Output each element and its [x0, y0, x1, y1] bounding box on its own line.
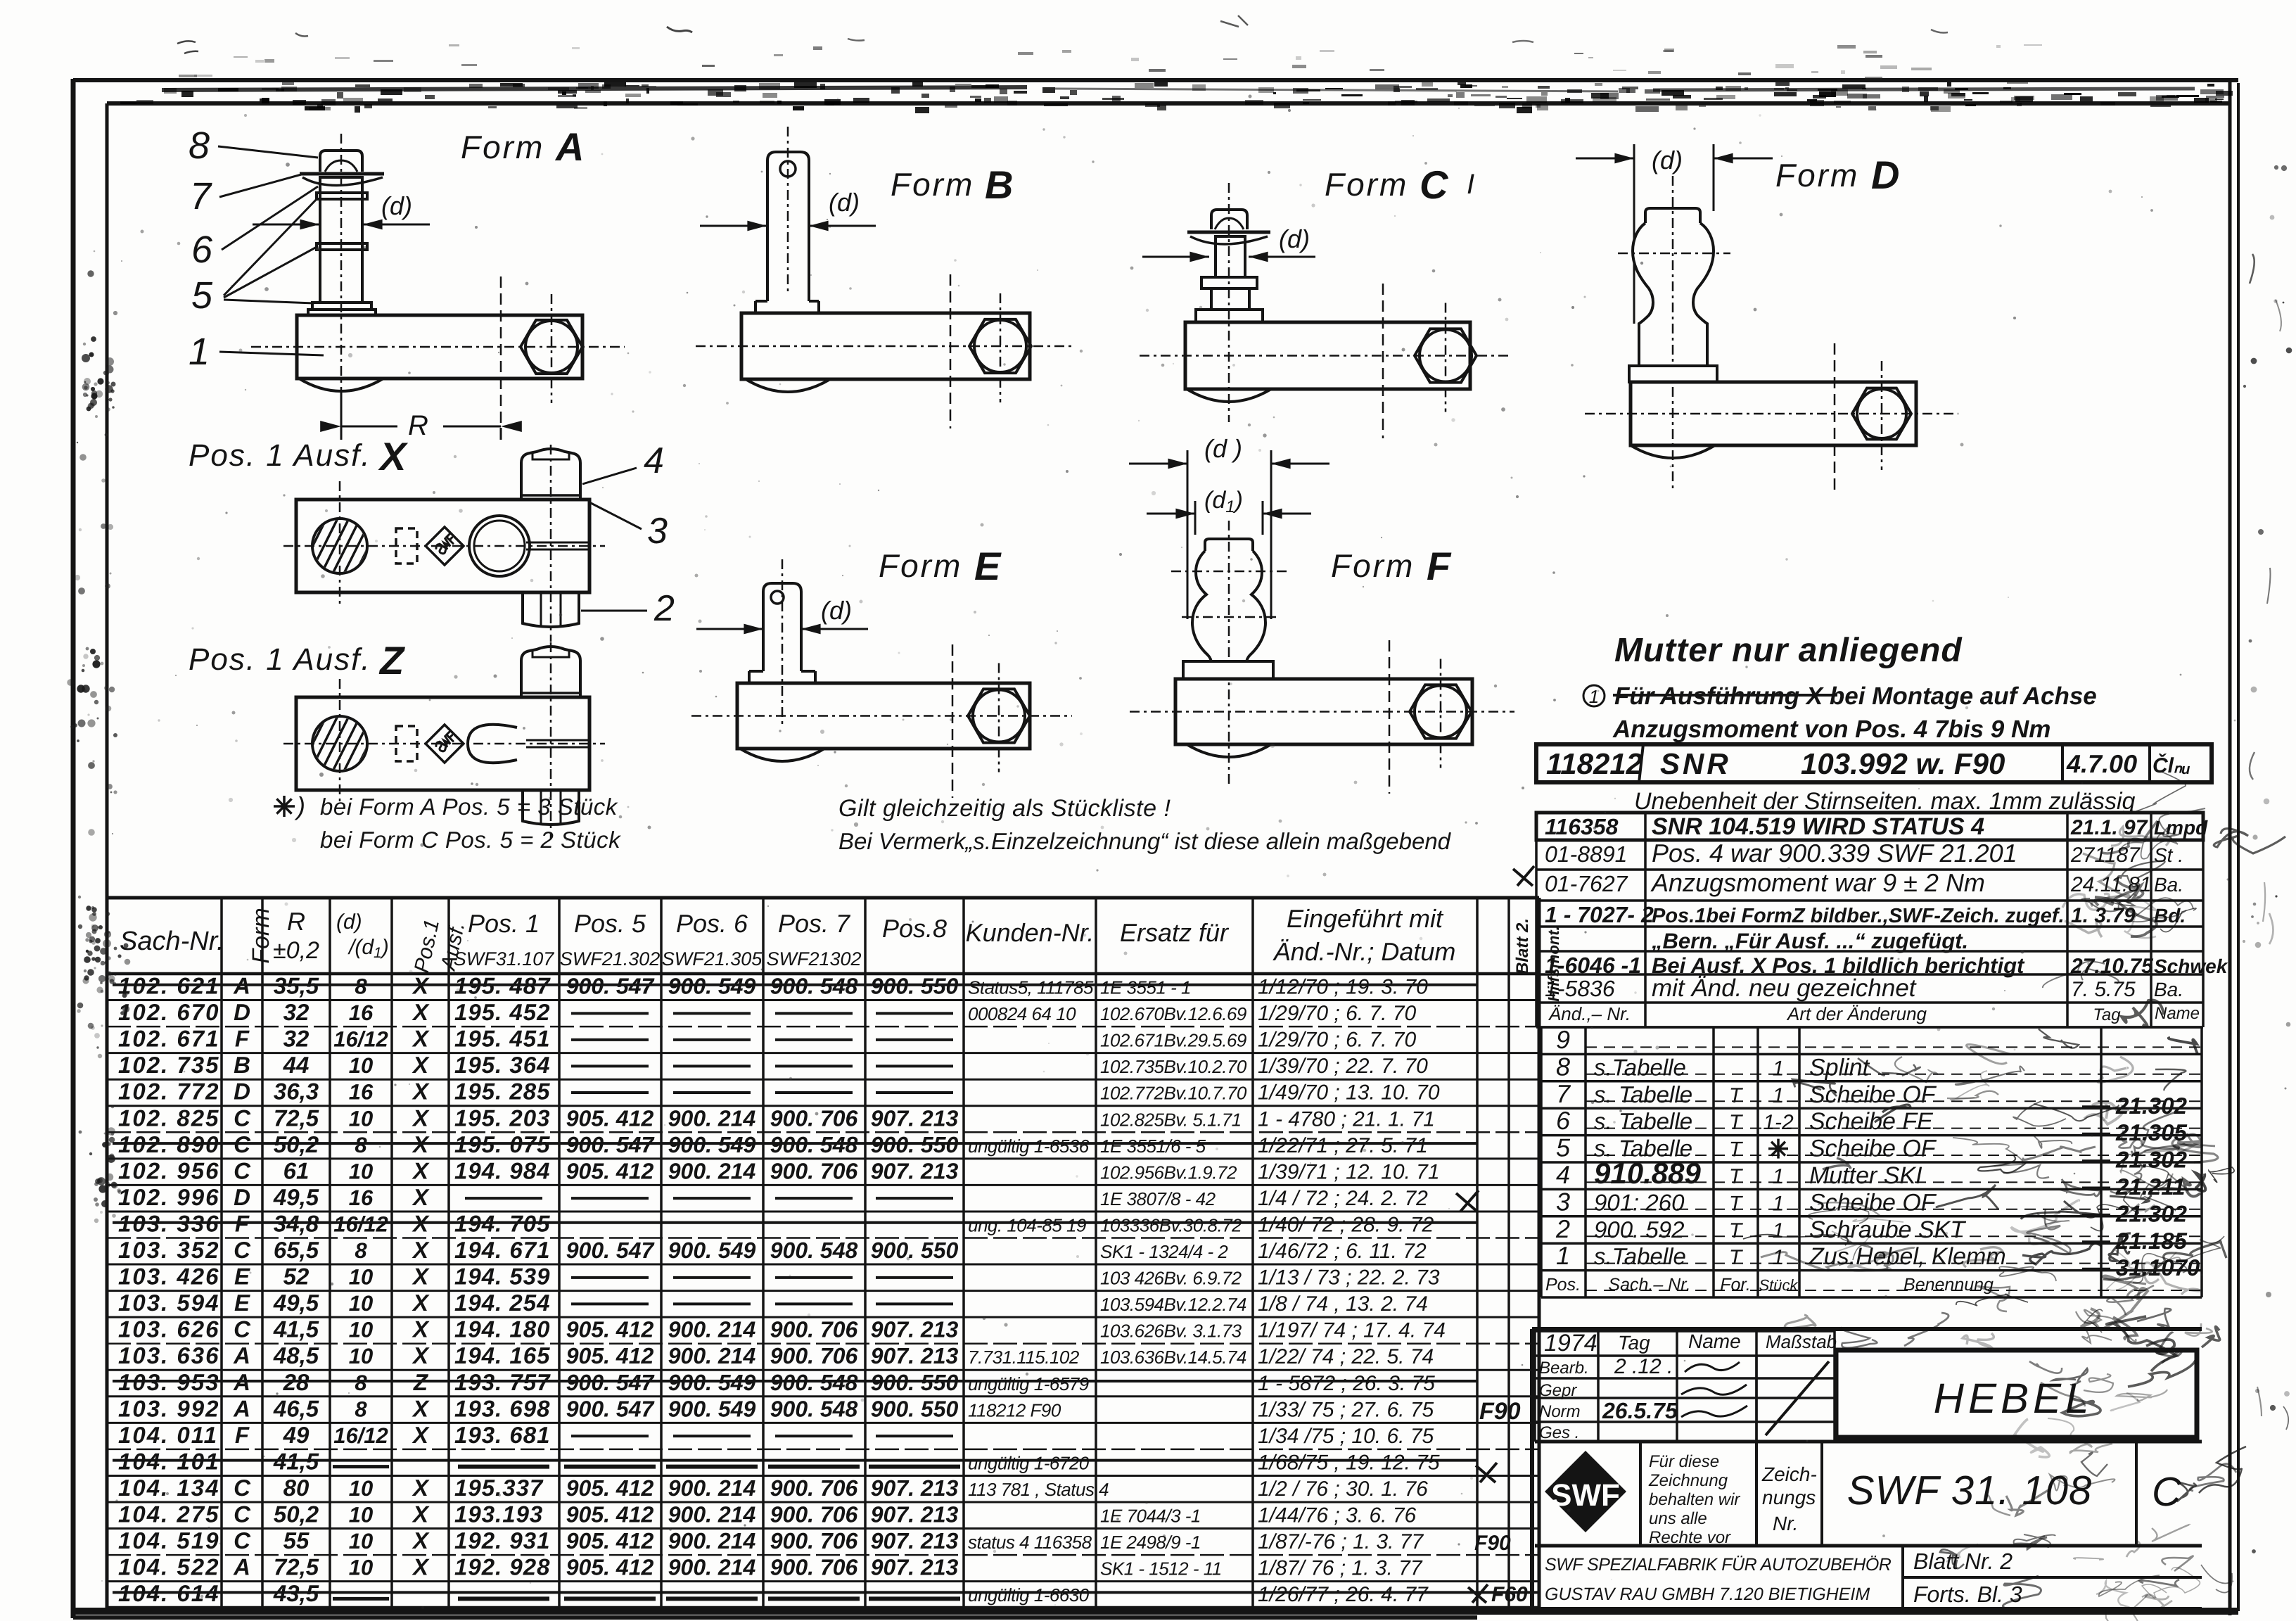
svg-text:Sach-Nr.: Sach-Nr. [120, 927, 224, 956]
svg-text:Scheibe OF: Scheibe OF [1809, 1136, 1937, 1162]
svg-text:907. 213: 907. 213 [871, 1555, 959, 1580]
svg-text:4: 4 [1556, 1160, 1570, 1189]
svg-text:1 - 4780 ; 21. 1. 71: 1 - 4780 ; 21. 1. 71 [1258, 1107, 1435, 1131]
svg-text:Splint: Splint [1809, 1054, 1870, 1081]
svg-text:7. 5.75: 7. 5.75 [2071, 978, 2136, 1001]
svg-text:900. 706: 900. 706 [770, 1343, 858, 1368]
svg-text:/(d1): /(d1) [347, 936, 389, 961]
svg-text:4.7.00: 4.7.00 [2066, 749, 2137, 778]
svg-text:SK1 - 1324/4 - 2: SK1 - 1324/4 - 2 [1100, 1241, 1228, 1262]
svg-text:s. Tabelle: s. Tabelle [1594, 1108, 1692, 1134]
svg-text:195. 451: 195. 451 [454, 1026, 550, 1052]
svg-text:21.302: 21.302 [2115, 1093, 2188, 1119]
svg-text:905. 412: 905. 412 [566, 1105, 654, 1131]
svg-text:102.671Bv.29.5.69: 102.671Bv.29.5.69 [1100, 1030, 1246, 1051]
svg-text:For.: For. [1720, 1275, 1751, 1295]
svg-text:Zeich-: Zeich- [1761, 1463, 1817, 1485]
svg-text:X: X [412, 1290, 430, 1316]
svg-text:1/44/76 ; 3. 6. 76: 1/44/76 ; 3. 6. 76 [1258, 1504, 1416, 1527]
svg-text:113 781 , Status 4: 113 781 , Status 4 [968, 1479, 1109, 1500]
svg-text:36,3: 36,3 [274, 1079, 319, 1105]
svg-text:SWF SPEZIALFABRIK FÜR AUTOZUBE: SWF SPEZIALFABRIK FÜR AUTOZUBEHÖR [1545, 1555, 1892, 1575]
svg-text:905. 412: 905. 412 [566, 1343, 654, 1368]
svg-text:Ges .: Ges . [1539, 1423, 1579, 1442]
svg-text:E: E [234, 1290, 250, 1316]
SNR 118212 change box [1536, 744, 2212, 782]
svg-text:Mutter SKI: Mutter SKI [1809, 1162, 1922, 1189]
Form E view [691, 544, 1072, 798]
svg-text:D: D [234, 1079, 250, 1105]
svg-text:X: X [412, 1475, 430, 1501]
svg-text:900. 549: 900. 549 [668, 1238, 756, 1263]
svg-text:Pos.: Pos. [1545, 1275, 1581, 1295]
svg-text:Blatt 2.: Blatt 2. [1513, 918, 1532, 974]
svg-text:Tag: Tag [1618, 1332, 1650, 1354]
svg-text:192. 928: 192. 928 [454, 1554, 550, 1580]
svg-text:Änd.,– Nr.: Änd.,– Nr. [1548, 1003, 1631, 1024]
svg-text:SWF31.107: SWF31.107 [454, 948, 555, 970]
svg-text:GUSTAV RAU GMBH 7.120 BIET: GUSTAV RAU GMBH 7.120 BIETIGHEIM [1545, 1584, 1870, 1604]
svg-text:900. 214: 900. 214 [668, 1317, 756, 1342]
svg-text:193. 681: 193. 681 [454, 1422, 550, 1448]
svg-text:1/22/ 74 ; 22. 5. 74: 1/22/ 74 ; 22. 5. 74 [1258, 1345, 1434, 1368]
svg-text:1974: 1974 [1544, 1330, 1597, 1356]
svg-text:1: 1 [1773, 1057, 1785, 1080]
svg-text:F: F [1427, 544, 1452, 588]
svg-text:102. 671: 102. 671 [118, 1026, 219, 1052]
svg-text:s.Tabelle: s.Tabelle [1594, 1054, 1686, 1080]
svg-text:s. Tabelle: s. Tabelle [1594, 1081, 1692, 1107]
svg-text:192. 931: 192. 931 [454, 1527, 550, 1553]
svg-text:X: X [412, 1422, 430, 1448]
svg-text:Bearb.: Bearb. [1539, 1359, 1589, 1378]
svg-text:3: 3 [647, 511, 668, 552]
svg-text:46,5: 46,5 [273, 1395, 319, 1421]
svg-text:52: 52 [283, 1264, 310, 1290]
svg-text:Pos.1bei FormZ bildber.,SWF-Ze: Pos.1bei FormZ bildber.,SWF-Zeich. zugef… [1652, 905, 2065, 927]
svg-text:102.670Bv.12.6.69: 102.670Bv.12.6.69 [1100, 1003, 1246, 1024]
svg-text:Rechte vor: Rechte vor [1649, 1528, 1731, 1547]
svg-text:X: X [412, 1105, 430, 1131]
svg-text:Pos. 7: Pos. 7 [778, 909, 851, 938]
Form D ball stud [1645, 208, 1700, 223]
svg-text:T: T [1729, 1246, 1744, 1269]
svg-text:„Bern. „Für Ausf. ...“ zugef: „Bern. „Für Ausf. ...“ zugefügt. [1651, 929, 1968, 953]
svg-text:ungültig 1-6579: ungültig 1-6579 [968, 1373, 1089, 1394]
svg-text:1: 1 [1773, 1192, 1785, 1215]
svg-text:C: C [234, 1237, 251, 1263]
svg-text:65,5: 65,5 [274, 1237, 319, 1263]
svg-text:116358: 116358 [1545, 814, 1619, 839]
svg-text:195. 203: 195. 203 [454, 1105, 550, 1131]
svg-text:Ba.: Ba. [2154, 874, 2183, 896]
svg-text:72,5: 72,5 [274, 1554, 319, 1580]
svg-text:Änd.-Nr.; Datum: Änd.-Nr.; Datum [1273, 937, 1456, 966]
svg-text:X: X [412, 1026, 430, 1052]
logo band [1535, 1442, 2202, 1546]
svg-text:Bd.: Bd. [2154, 905, 2186, 927]
svg-text:SWF: SWF [1551, 1478, 1620, 1513]
svg-text:Ersatz für: Ersatz für [1120, 918, 1230, 947]
svg-text:(d): (d) [1652, 146, 1683, 174]
Form B clevis pin [767, 152, 809, 301]
svg-text:1: 1 [1773, 1219, 1785, 1242]
svg-text:7: 7 [1556, 1079, 1571, 1108]
svg-text:194. 539: 194. 539 [454, 1264, 550, 1290]
svg-text:21.302: 21.302 [2115, 1200, 2188, 1226]
svg-text:8: 8 [1556, 1052, 1570, 1081]
title block frame [1532, 1329, 2202, 1609]
big table column headers [120, 904, 1562, 1002]
svg-text:907. 213: 907. 213 [871, 1105, 959, 1131]
svg-text:194. 254: 194. 254 [454, 1290, 550, 1316]
note: Stueck note [274, 792, 621, 853]
svg-text:26.5.75: 26.5.75 [1602, 1398, 1678, 1423]
svg-text:1/29/70 ; 6. 7. 70: 1/29/70 ; 6. 7. 70 [1258, 1002, 1416, 1025]
svg-text:5: 5 [191, 274, 213, 317]
svg-text:Form: Form [248, 908, 274, 963]
svg-text:Status5; 111785: Status5; 111785 [968, 977, 1094, 998]
svg-text:Form: Form [879, 547, 962, 584]
svg-text:Nr.: Nr. [1773, 1513, 1798, 1534]
svg-text:50,2: 50,2 [274, 1501, 319, 1527]
svg-text:103. 352: 103. 352 [118, 1237, 219, 1263]
svg-text:194. 165: 194. 165 [454, 1342, 550, 1368]
svg-text:103. 426: 103. 426 [118, 1264, 219, 1290]
svg-text:1: 1 [1589, 686, 1599, 707]
svg-text:Art der Änderung: Art der Änderung [1786, 1003, 1927, 1024]
svg-text:49: 49 [283, 1422, 310, 1448]
svg-text:102.825Bv. 5.1.71: 102.825Bv. 5.1.71 [1100, 1109, 1242, 1130]
svg-text:104. 134: 104. 134 [118, 1475, 219, 1501]
Form E clevis pin [763, 583, 801, 671]
svg-text:(d): (d) [821, 596, 852, 625]
Form D view [1576, 144, 1958, 495]
svg-text:118212 F90: 118212 F90 [968, 1399, 1061, 1420]
svg-text:2: 2 [1555, 1214, 1570, 1243]
svg-text:910.889: 910.889 [1594, 1157, 1701, 1190]
svg-text:195. 285: 195. 285 [454, 1079, 550, 1105]
svg-text:901: 260: 901: 260 [1594, 1189, 1685, 1215]
svg-text:1/46/72 ; 6. 11. 72: 1/46/72 ; 6. 11. 72 [1258, 1240, 1427, 1263]
svg-text:1/34 /75 ; 10. 6. 75: 1/34 /75 ; 10. 6. 75 [1258, 1425, 1434, 1448]
svg-text:10: 10 [349, 1503, 373, 1527]
svg-text:102.956Bv.1.9.72: 102.956Bv.1.9.72 [1100, 1162, 1237, 1183]
svg-text:Stück: Stück [1759, 1276, 1798, 1294]
svg-text:(d1): (d1) [1204, 487, 1243, 516]
svg-text:104. 519: 104. 519 [118, 1527, 219, 1553]
svg-text:1/8 / 74 , 13. 2. 74: 1/8 / 74 , 13. 2. 74 [1258, 1292, 1428, 1316]
svg-text:T: T [1729, 1084, 1744, 1107]
svg-text:1/33/ 75 ; 27. 6. 75: 1/33/ 75 ; 27. 6. 75 [1258, 1398, 1434, 1421]
Form A view [189, 125, 625, 441]
svg-text:X: X [412, 1342, 430, 1368]
svg-text:Pos. 5: Pos. 5 [574, 909, 646, 938]
svg-text:27.10.75: 27.10.75 [2070, 955, 2154, 978]
svg-text:900. 548: 900. 548 [770, 1396, 858, 1421]
svg-text:1: 1 [1773, 1084, 1785, 1107]
svg-text:1-2: 1-2 [1763, 1111, 1794, 1134]
svg-text:1E 3551/6 - 5: 1E 3551/6 - 5 [1100, 1136, 1206, 1157]
svg-text:Gilt gleichzeitig als Stü: Gilt gleichzeitig als Stückliste ! [838, 795, 1171, 822]
svg-text:Form: Form [1331, 547, 1415, 584]
svg-text:A: A [233, 1342, 250, 1368]
svg-text:1/39/71 ; 12. 10. 71: 1/39/71 ; 12. 10. 71 [1258, 1160, 1440, 1183]
svg-text:907. 213: 907. 213 [871, 1502, 959, 1527]
svg-text:61: 61 [283, 1157, 310, 1183]
svg-text:Pos.8: Pos.8 [882, 914, 947, 943]
svg-text:T: T [1729, 1219, 1744, 1242]
svg-text:X: X [412, 1052, 430, 1078]
svg-text:X: X [412, 1079, 430, 1105]
svg-text:10: 10 [349, 1556, 373, 1580]
svg-text:Pos. 4 war 900.339 SWF 21.20: Pos. 4 war 900.339 SWF 21.201 [1652, 839, 2017, 867]
svg-text:Name: Name [1688, 1330, 1741, 1352]
svg-text:bei Form A Pos. 5 = 3 St: bei Form A Pos. 5 = 3 Stück [320, 794, 618, 820]
svg-text:(d): (d) [381, 191, 412, 220]
svg-text:X: X [412, 1316, 430, 1342]
big variants table grid [107, 898, 1539, 1608]
svg-text:1/68/75 , 19. 12. 75: 1/68/75 , 19. 12. 75 [1258, 1451, 1440, 1474]
svg-text:55: 55 [283, 1527, 310, 1553]
svg-text:900. 214: 900. 214 [668, 1105, 756, 1131]
svg-text:900. 214: 900. 214 [668, 1555, 756, 1580]
svg-text:72,5: 72,5 [274, 1105, 319, 1131]
svg-text:ung. 104-85 19: ung. 104-85 19 [968, 1214, 1086, 1235]
svg-text:1E 2498/9 -1: 1E 2498/9 -1 [1100, 1532, 1201, 1553]
svg-text:F: F [235, 1026, 250, 1052]
svg-text:1/2 / 76 ; 30. 1. 76: 1/2 / 76 ; 30. 1. 76 [1258, 1477, 1428, 1501]
svg-text:1-6046 -1: 1-6046 -1 [1545, 953, 1641, 978]
svg-text:8: 8 [355, 1397, 367, 1421]
svg-text:1/13 / 73 ; 22. 2. 73: 1/13 / 73 ; 22. 2. 73 [1258, 1266, 1440, 1290]
svg-text:SWF21302: SWF21302 [766, 948, 861, 970]
svg-text:uns alle: uns alle [1649, 1509, 1707, 1528]
svg-text:9: 9 [1556, 1025, 1570, 1054]
svg-text:103. 992: 103. 992 [118, 1395, 219, 1421]
svg-text:104. 522: 104. 522 [118, 1554, 219, 1580]
svg-text:8: 8 [355, 1238, 367, 1263]
svg-text:10: 10 [349, 1529, 373, 1553]
svg-text:R: R [287, 907, 305, 936]
Form F view [1129, 434, 1514, 794]
svg-text:8: 8 [355, 1133, 367, 1157]
svg-text:49,5: 49,5 [273, 1184, 319, 1210]
svg-text:194. 180: 194. 180 [454, 1316, 550, 1342]
HEBEL box [1836, 1350, 2197, 1437]
svg-text:103. 626: 103. 626 [118, 1316, 219, 1342]
svg-text:X: X [412, 999, 430, 1025]
svg-text:F90: F90 [1474, 1532, 1511, 1555]
svg-text:900. 214: 900. 214 [668, 1158, 756, 1183]
svg-text:16/12: 16/12 [333, 1423, 388, 1448]
svg-text:905. 412: 905. 412 [566, 1475, 654, 1501]
svg-text:32: 32 [283, 999, 310, 1025]
svg-text:1/12/70 ; 19. 3. 70: 1/12/70 ; 19. 3. 70 [1258, 976, 1428, 999]
svg-text:X: X [412, 1501, 430, 1527]
svg-text:7: 7 [190, 175, 212, 217]
svg-text:Anzugsmoment von Pos. 4 7: Anzugsmoment von Pos. 4 7bis 9 Nm [1612, 716, 2051, 743]
svg-text:900. 706: 900. 706 [770, 1475, 858, 1501]
svg-text:16/12: 16/12 [333, 1212, 388, 1236]
svg-text:195.337: 195.337 [454, 1475, 544, 1501]
svg-text:C: C [234, 1501, 251, 1527]
svg-text:49,5: 49,5 [273, 1290, 319, 1316]
svg-text:102. 735: 102. 735 [118, 1052, 219, 1078]
svg-text:(d): (d) [336, 910, 362, 934]
svg-text:Gepr: Gepr [1539, 1381, 1577, 1400]
svg-text:8: 8 [355, 1371, 367, 1395]
svg-text:104. 275: 104. 275 [118, 1501, 219, 1527]
svg-text:900. 214: 900. 214 [668, 1528, 756, 1553]
svg-text:900. 706: 900. 706 [770, 1528, 858, 1553]
svg-text:X: X [378, 434, 409, 478]
Form F double-ball stud [1205, 539, 1253, 551]
svg-text:1/39/70 ; 22. 7. 70: 1/39/70 ; 22. 7. 70 [1258, 1055, 1428, 1078]
svg-text:000824 64 10: 000824 64 10 [968, 1003, 1076, 1024]
Form C view [1140, 163, 1512, 438]
svg-text:1/26/77 ; 26. 4. 77: 1/26/77 ; 26. 4. 77 [1258, 1583, 1429, 1606]
svg-text:D: D [234, 1184, 250, 1210]
svg-text:1/87/-76 ; 1. 3. 77: 1/87/-76 ; 1. 3. 77 [1258, 1530, 1424, 1553]
svg-text:Form: Form [461, 129, 544, 165]
svg-text:102. 670: 102. 670 [118, 999, 219, 1025]
SWF logo diamond [1545, 1451, 1626, 1532]
svg-text:103.626Bv. 3.1.73: 103.626Bv. 3.1.73 [1100, 1321, 1242, 1342]
note: Mutter nur anliegend (handwritten) [1583, 632, 2097, 743]
svg-text:ungültig 1-6630: ungültig 1-6630 [968, 1584, 1090, 1606]
svg-text:102. 996: 102. 996 [118, 1184, 219, 1210]
svg-text:C: C [234, 1316, 251, 1342]
svg-text:Scheibe OF: Scheibe OF [1809, 1081, 1937, 1108]
svg-text:8: 8 [189, 125, 210, 167]
svg-text:10: 10 [349, 1318, 373, 1342]
svg-text:SWF21.302: SWF21.302 [560, 948, 661, 970]
svg-text:900. 706: 900. 706 [770, 1158, 858, 1183]
svg-text:X: X [412, 1264, 430, 1290]
svg-text:Schwek: Schwek [2154, 955, 2228, 977]
svg-text:900. 550: 900. 550 [871, 1396, 959, 1421]
Pos.1 Ausf. X view [189, 434, 675, 642]
svg-text:SNR: SNR [1660, 747, 1731, 780]
svg-text:(d): (d) [1279, 224, 1310, 253]
svg-text:Bei Vermerk„s.Einzelzeichnung: Bei Vermerk„s.Einzelzeichnung“ ist diese… [838, 828, 1452, 854]
svg-text:mit Änd. neu gezeichnet: mit Änd. neu gezeichnet [1652, 974, 1917, 1002]
svg-text:1: 1 [1773, 1165, 1785, 1188]
svg-text:104. 011: 104. 011 [118, 1422, 218, 1448]
svg-text:E: E [234, 1264, 250, 1290]
note: Stueckliste [838, 795, 1452, 854]
svg-text:5: 5 [1556, 1133, 1571, 1162]
svg-text:SK1 - 1512 - 11: SK1 - 1512 - 11 [1100, 1558, 1222, 1579]
svg-text:900. 547: 900. 547 [566, 1238, 656, 1263]
svg-text:(d ): (d ) [1204, 434, 1242, 463]
svg-text:Blatt Nr. 2: Blatt Nr. 2 [1913, 1549, 2013, 1574]
svg-text:193. 698: 193. 698 [454, 1395, 550, 1421]
svg-text:905. 412: 905. 412 [566, 1528, 654, 1553]
svg-text:C: C [1420, 163, 1449, 207]
svg-text:905. 412: 905. 412 [566, 1158, 654, 1183]
svg-text:905. 412: 905. 412 [566, 1502, 654, 1527]
svg-text:X: X [412, 1184, 430, 1210]
svg-text:103.594Bv.12.2.74: 103.594Bv.12.2.74 [1100, 1294, 1246, 1315]
svg-text:900. 548: 900. 548 [770, 1238, 858, 1263]
svg-text:103336Bv.30.8.72: 103336Bv.30.8.72 [1100, 1214, 1242, 1235]
svg-text:Kunden-Nr.: Kunden-Nr. [966, 918, 1095, 947]
svg-text:900. 592: 900. 592 [1594, 1216, 1684, 1242]
svg-text:900. 549: 900. 549 [668, 1396, 756, 1421]
svg-text:Benennung: Benennung [1903, 1275, 1994, 1295]
Form D (d) dimension [1633, 144, 1635, 324]
svg-text:C: C [234, 1475, 251, 1501]
svg-text:behalten wir: behalten wir [1649, 1490, 1740, 1509]
svg-text:Unebenheit der Stirnseiten.: Unebenheit der Stirnseiten. max. 1mm zul… [1634, 788, 2136, 815]
svg-text:48,5: 48,5 [273, 1342, 319, 1368]
svg-text:103.992 w. F90: 103.992 w. F90 [1801, 747, 2005, 780]
svg-text:907. 213: 907. 213 [871, 1343, 959, 1368]
svg-text:1: 1 [1773, 1246, 1785, 1269]
svg-text:102. 772: 102. 772 [118, 1079, 219, 1105]
svg-text:X: X [412, 1554, 430, 1580]
svg-text:nungs: nungs [1762, 1487, 1816, 1508]
svg-text:Z: Z [378, 638, 405, 682]
svg-text:ungültig 1-6720: ungültig 1-6720 [968, 1452, 1090, 1473]
svg-text:Pos. 1 Ausf.: Pos. 1 Ausf. [189, 438, 371, 473]
Form B view [696, 127, 1072, 428]
svg-text:102.772Bv.10.7.70: 102.772Bv.10.7.70 [1100, 1083, 1247, 1104]
svg-text:F90: F90 [1479, 1398, 1521, 1425]
svg-text:905. 412: 905. 412 [566, 1555, 654, 1580]
svg-text:103. 594: 103. 594 [118, 1290, 219, 1316]
svg-text:X: X [412, 1395, 430, 1421]
svg-text:C: C [234, 1527, 251, 1553]
svg-text:900. 706: 900. 706 [770, 1317, 858, 1342]
svg-text:X: X [412, 1527, 430, 1553]
svg-text:118212: 118212 [1546, 747, 1643, 780]
svg-text:10: 10 [349, 1291, 373, 1316]
svg-text:1 - 7027- 2: 1 - 7027- 2 [1545, 902, 1654, 927]
svg-text:900. 706: 900. 706 [770, 1502, 858, 1527]
svg-text:900. 214: 900. 214 [668, 1475, 756, 1501]
svg-text:D: D [234, 999, 250, 1025]
svg-text:±0,2: ±0,2 [273, 937, 319, 964]
svg-text:A: A [554, 125, 584, 169]
svg-text:Eingeführt mit: Eingeführt mit [1287, 904, 1444, 933]
svg-text:907. 213: 907. 213 [871, 1158, 959, 1183]
svg-text:Člₙᵤ: Člₙᵤ [2152, 754, 2190, 777]
svg-text:SWF21.305: SWF21.305 [662, 948, 763, 970]
svg-text:X: X [412, 1157, 430, 1183]
svg-text:1/49/70 ; 13. 10. 70: 1/49/70 ; 13. 10. 70 [1258, 1081, 1440, 1105]
svg-text:T: T [1729, 1165, 1744, 1188]
svg-text:Pos. 1 Ausf.: Pos. 1 Ausf. [189, 642, 371, 677]
svg-text:status 4 116358: status 4 116358 [968, 1532, 1092, 1553]
svg-text:1/22/71 ; 27. 5. 71: 1/22/71 ; 27. 5. 71 [1258, 1134, 1428, 1157]
svg-text:7.731.115.102: 7.731.115.102 [968, 1347, 1080, 1368]
svg-text:Form: Form [1775, 157, 1859, 193]
handwritten F90 / X marks [1456, 1190, 1528, 1606]
svg-text:s.Tabelle: s.Tabelle [1594, 1243, 1686, 1269]
svg-text:1 - 5872 ; 26. 3. 75: 1 - 5872 ; 26. 3. 75 [1258, 1372, 1435, 1395]
svg-text:1E 7044/3 -1: 1E 7044/3 -1 [1100, 1506, 1201, 1527]
svg-text:103.636Bv.14.5.74: 103.636Bv.14.5.74 [1100, 1347, 1246, 1368]
svg-text:Tag: Tag [2093, 1005, 2121, 1024]
svg-text:E: E [974, 544, 1002, 588]
svg-text:Für diese: Für diese [1649, 1452, 1719, 1471]
svg-text:900. 214: 900. 214 [668, 1502, 756, 1527]
big table data rows [113, 973, 1539, 1607]
svg-text:80: 80 [283, 1475, 310, 1501]
